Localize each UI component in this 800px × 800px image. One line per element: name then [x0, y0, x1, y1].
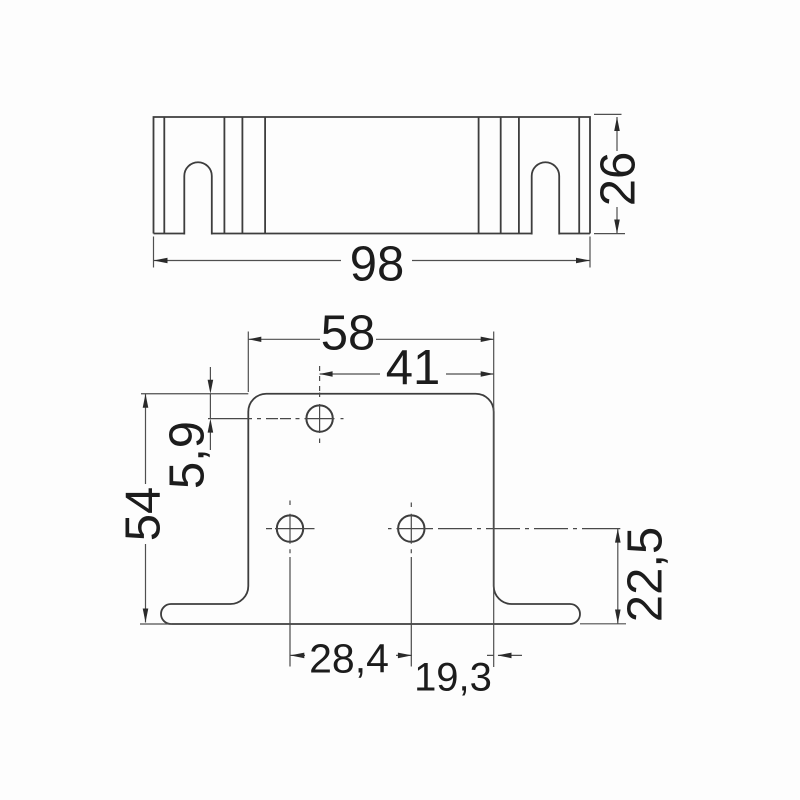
- svg-text:54: 54: [117, 487, 171, 542]
- svg-text:26: 26: [592, 152, 646, 207]
- svg-text:19,3: 19,3: [414, 656, 492, 700]
- svg-text:98: 98: [350, 238, 405, 292]
- svg-text:28,4: 28,4: [309, 636, 389, 682]
- svg-text:5,9: 5,9: [161, 421, 215, 489]
- svg-text:22,5: 22,5: [619, 527, 673, 622]
- svg-text:58: 58: [321, 307, 376, 361]
- svg-text:41: 41: [386, 341, 441, 395]
